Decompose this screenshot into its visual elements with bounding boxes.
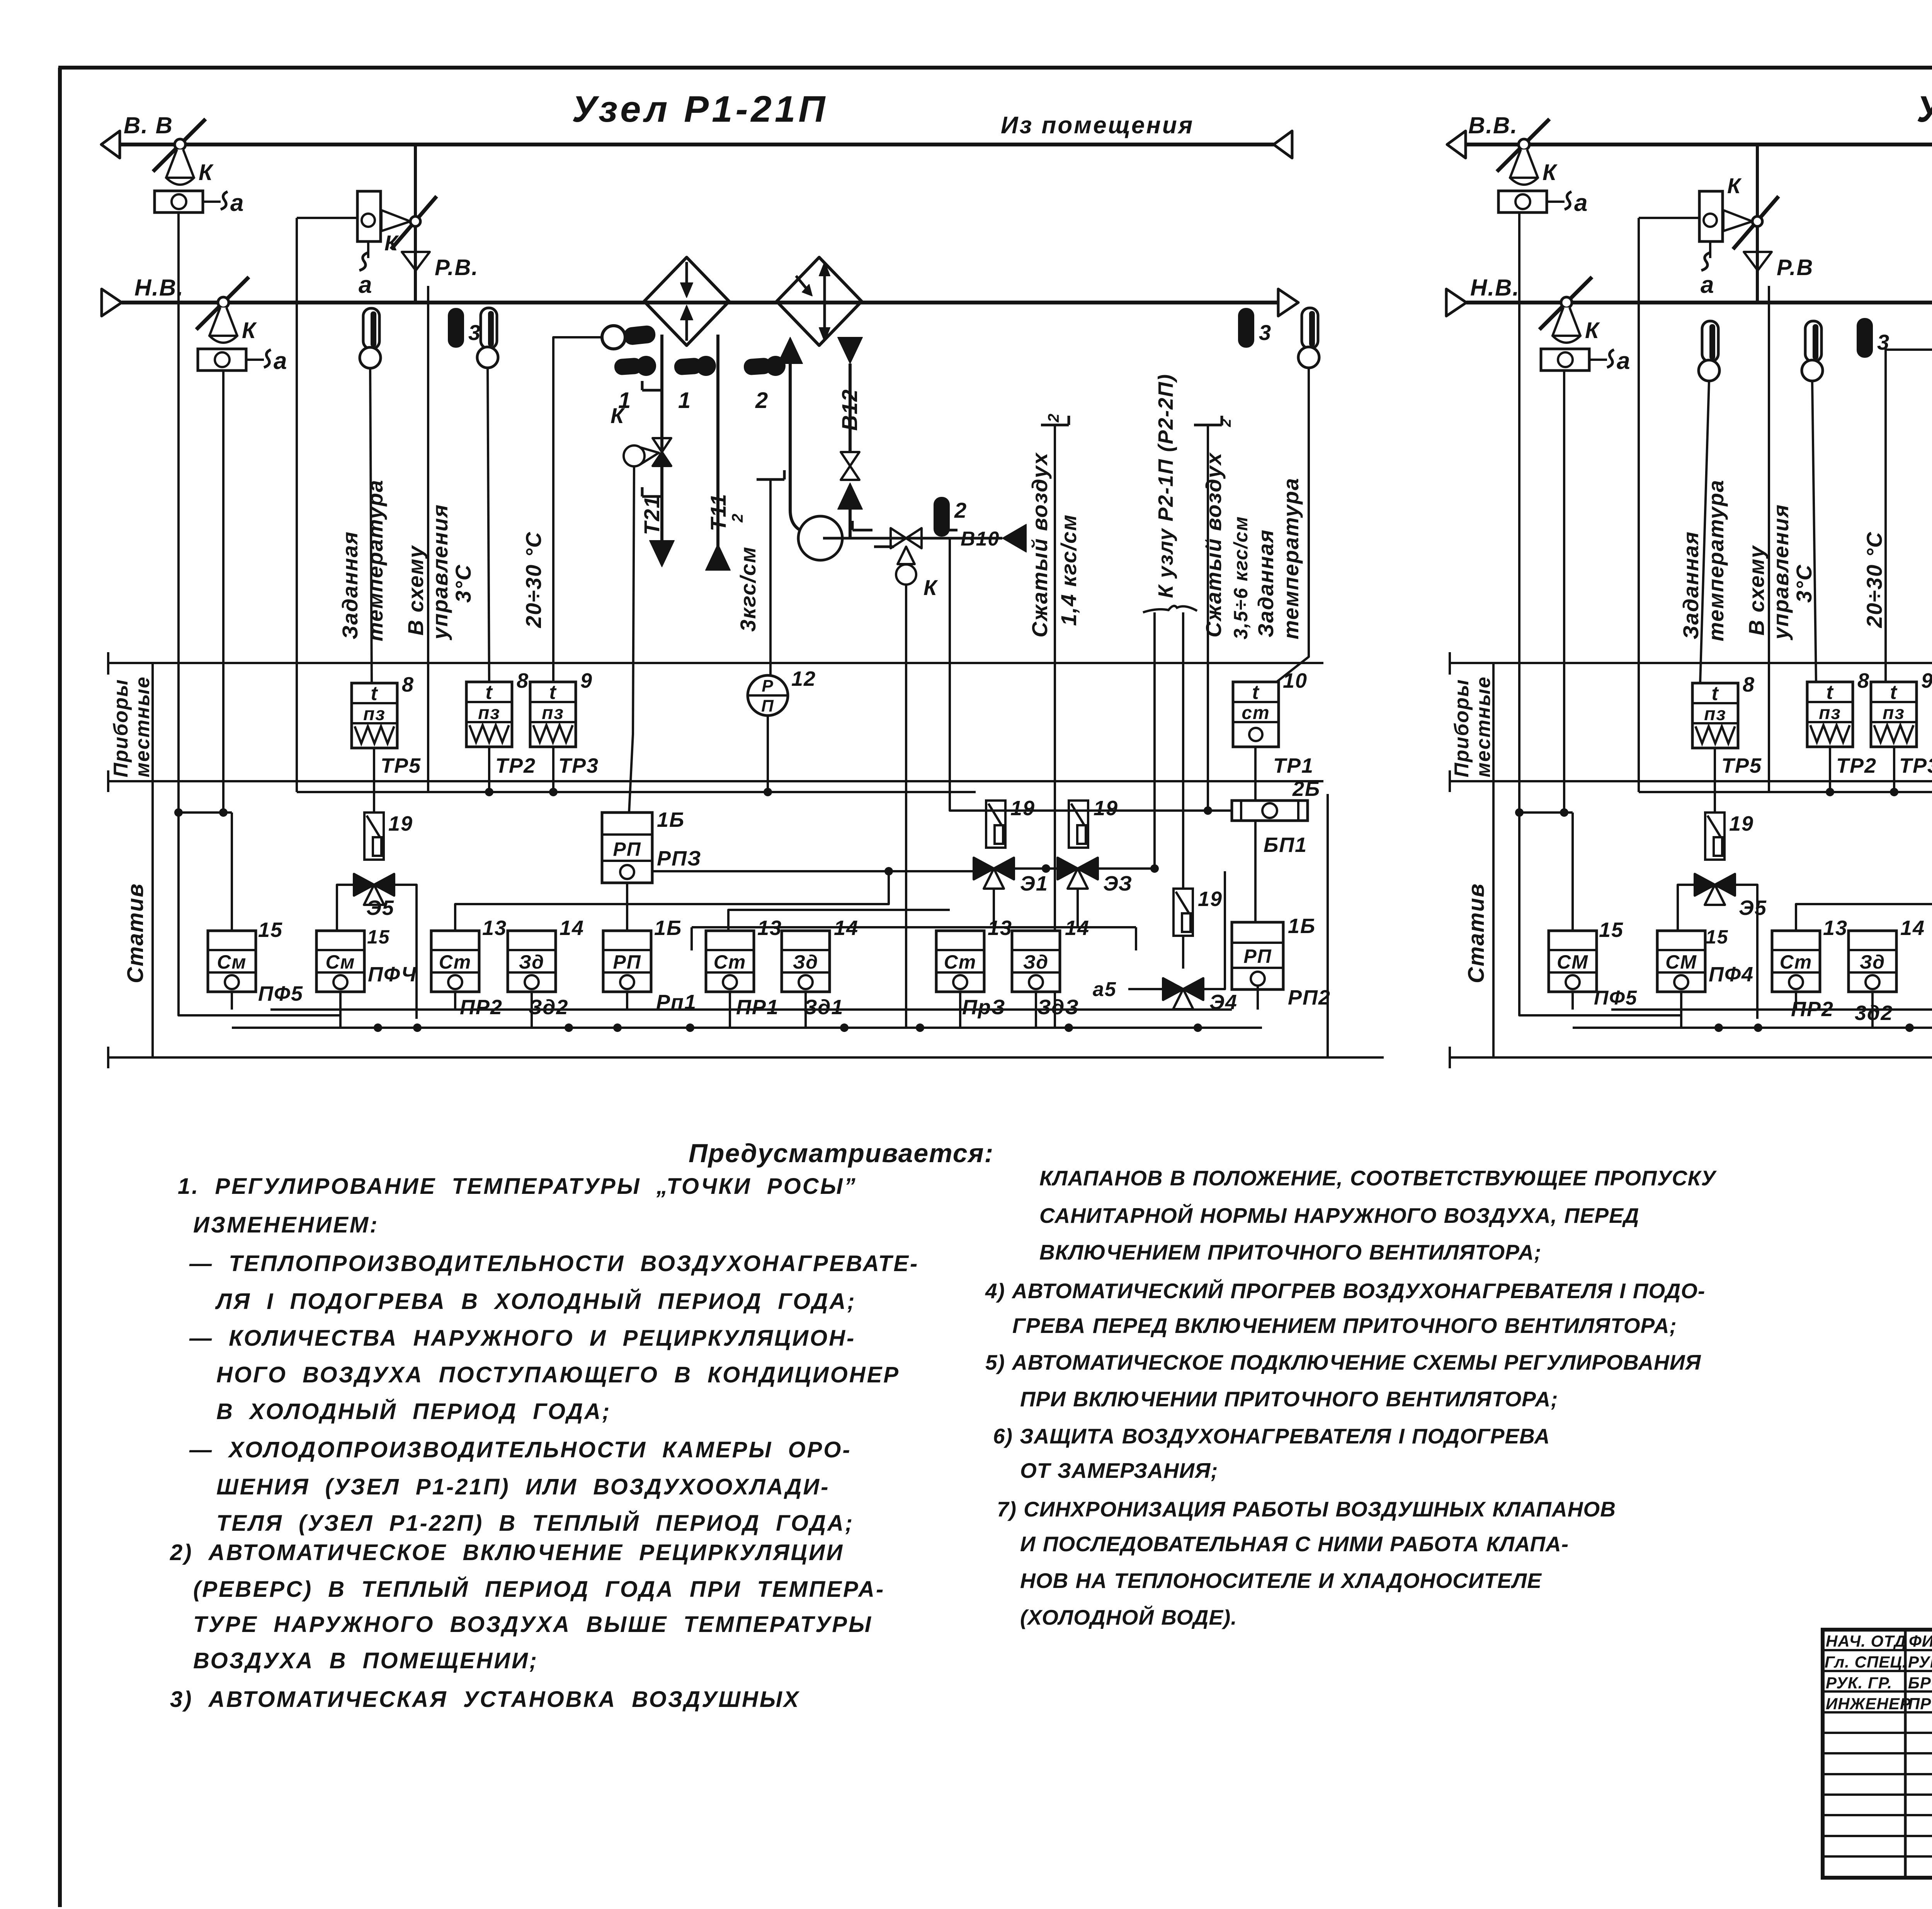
svg-text:19: 19 [1010,797,1035,820]
svg-text:t: t [485,681,493,704]
damper K2 supply pivot [218,297,229,308]
svg-text:14: 14 [1900,916,1925,940]
supply duct N.V. left schematic [122,301,1278,304]
svg-text:температура: температура [363,479,387,641]
sensor pickup 1b left [674,357,703,376]
T right-1 lead [1700,381,1709,683]
wire box stubs left [231,992,233,1010]
svg-text:Зд: Зд [793,951,818,973]
recirculation riser [414,144,417,303]
svg-text:1Б: 1Б [657,808,685,831]
damper K1 exhaust membrane actuator [166,150,194,185]
thermometer T left-3 lead [488,368,489,683]
svg-text:Из помещения: Из помещения [1001,112,1194,139]
wire bus W4 [232,1027,1262,1029]
svg-text:В12: В12 [837,389,862,431]
svg-text:3,5÷6 кгс/см: 3,5÷6 кгс/см [1230,516,1252,639]
svg-text:ТР5: ТР5 [381,754,421,777]
recirc damper blade [391,196,437,249]
svg-text:В10: В10 [961,528,1000,550]
svg-text:Статив: Статив [1464,883,1489,983]
wire gauge drop [767,716,769,792]
wire bracket 13-14 b [728,910,950,931]
svg-text:Э1: Э1 [1020,872,1048,895]
svg-text:5) АВТОМАТИЧЕСКОЕ ПОДКЛЮЧЕН: 5) АВТОМАТИЧЕСКОЕ ПОДКЛЮЧЕНИЕ СХЕМЫ РЕГУ… [985,1350,1701,1374]
thermometer T left-2 (3) [448,308,464,348]
svg-text:t: t [1826,681,1834,704]
wire bracket 13-14 a r [1796,871,1932,931]
wire B10 actuator drop [905,585,907,1028]
wire a5 [1128,988,1163,990]
svg-text:Заданная: Заданная [338,531,362,639]
wire damper drops junction r [1518,212,1520,813]
svg-text:ПРОБИН: ПРОБИН [1908,1695,1932,1713]
svg-text:СМ: СМ [1557,951,1588,973]
wire W3 risers [690,927,693,950]
svg-text:ТР2: ТР2 [1836,754,1877,777]
svg-text:К: К [242,318,257,343]
svg-text:7) СИНХРОНИЗАЦИЯ РАБОТЫ: 7) СИНХРОНИЗАЦИЯ РАБОТЫ ВОЗДУШНЫХ КЛАПАН… [997,1497,1616,1521]
svg-text:Статив: Статив [123,883,148,983]
svg-text:t: t [1711,682,1719,705]
svg-text:Приборы: Приборы [1451,679,1473,777]
svg-text:— ТЕПЛОПРОИЗВОДИТЕЛЬНОСТИ В: — ТЕПЛОПРОИЗВОДИТЕЛЬНОСТИ ВОЗДУХОНАГРЕВА… [189,1251,919,1276]
device Zd2 left [508,931,556,992]
svg-text:2: 2 [755,388,769,413]
svg-text:К: К [611,403,625,428]
wire E4 right [1203,871,1225,989]
svg-text:температура: температура [1279,478,1303,639]
device RP2 left [1232,922,1283,989]
solenoid valve E3 left [1058,858,1078,879]
instrument TP1 left [1233,682,1279,747]
thermometer T left-1 [363,308,379,349]
svg-text:К: К [1585,318,1600,343]
svg-text:8: 8 [402,673,414,696]
svg-text:Т21: Т21 [639,496,664,535]
svg-text:а: а [1617,348,1631,374]
svg-text:ст: ст [1242,703,1270,723]
valve B12 valve [841,452,859,466]
damper K1r exhaust link to a [1547,201,1565,203]
recirc feed wire [297,217,357,219]
damper K1 exhaust pivot [175,139,185,150]
air cap 3kgf [757,478,784,481]
wire damper drops junction [177,212,180,813]
page border top [58,66,1932,70]
svg-text:управления: управления [428,504,452,641]
damper K1 exhaust positioner box [155,191,203,212]
stativ bracket vertical right [1492,663,1495,1057]
svg-text:ВОЗДУХА В ПОМЕЩЕНИИ;: ВОЗДУХА В ПОМЕЩЕНИИ; [193,1648,538,1673]
device RP3 left [602,813,652,883]
recirc damper blade right [1733,196,1779,249]
svg-text:t: t [549,681,557,704]
svg-text:19: 19 [388,812,413,835]
damper K2r supply pivot [1561,297,1572,308]
svg-text:— КОЛИЧЕСТВА НАРУЖНОГО И Р: — КОЛИЧЕСТВА НАРУЖНОГО И РЕЦИРКУЛЯЦИОН- [189,1326,855,1351]
svg-text:Ст: Ст [714,951,747,973]
svg-text:Заданная: Заданная [1679,531,1703,639]
recirc positioner box [357,191,381,241]
wire left L [179,813,340,1015]
svg-text:9: 9 [580,669,593,692]
svg-text:В.В.: В.В. [1468,112,1518,138]
device PR3 left [936,931,984,992]
svg-text:6) ЗАЩИТА ВОЗДУХОНАГРЕВАТЕЛ: 6) ЗАЩИТА ВОЗДУХОНАГРЕВАТЕЛЯ I ПОДОГРЕВА [993,1424,1550,1448]
svg-text:12: 12 [791,667,816,690]
solenoid valve E4 left [1163,978,1183,1000]
exhaust duct V.V. right schematic [1465,143,1932,146]
svg-text:ОТ ЗАМЕРЗАНИЯ;: ОТ ЗАМЕРЗАНИЯ; [1020,1459,1218,1482]
exhaust duct V.V. left schematic [119,143,1274,146]
svg-text:Зд: Зд [519,951,544,973]
svg-text:1: 1 [678,388,691,413]
svg-text:t: t [371,682,378,705]
boundary line B left [108,780,1323,782]
svg-text:ТР2: ТР2 [495,754,536,777]
svg-text:19: 19 [1729,812,1754,835]
stativ bottom boundary left [108,1056,1384,1059]
instrument TP5 right [1692,683,1738,748]
svg-text:ВКЛЮЧЕНИЕМ ПРИТОЧНОГО ВЕ: ВКЛЮЧЕНИЕМ ПРИТОЧНОГО ВЕНТИЛЯТОРА; [1039,1240,1541,1264]
svg-text:а: а [1701,272,1714,298]
svg-text:2: 2 [1045,413,1062,423]
damper K2r supply link to a [1589,359,1607,361]
svg-text:ПФЧ: ПФЧ [368,963,417,986]
wire box stubs right [1571,992,1574,1010]
thermometer T right-3 (3) [1857,318,1873,358]
svg-text:19: 19 [1198,887,1223,911]
damper K2 supply blade [196,277,249,330]
svg-text:3д2: 3д2 [1855,1001,1893,1025]
svg-text:3) АВТОМАТИЧЕСКАЯ УСТАНОВКА: 3) АВТОМАТИЧЕСКАЯ УСТАНОВКА ВОЗДУШНЫХ [170,1687,800,1712]
svg-text:15: 15 [367,926,390,948]
svg-text:К: К [1543,160,1558,185]
pipe B10 horizontal [823,537,1002,540]
svg-text:пз: пз [478,703,500,723]
thermometer T left-5 [1302,308,1318,348]
air line 3.5-6 left [1194,424,1222,427]
damper K1r exhaust membrane actuator [1510,150,1538,185]
damper K1 exhaust blade [153,119,206,172]
pressure gauge 12 left [748,675,788,716]
svg-text:10: 10 [1283,669,1308,692]
wire TP2 drop [488,747,490,792]
device PF4 left [316,931,364,992]
svg-text:Т11: Т11 [706,493,730,531]
damper K1r exhaust pivot [1519,139,1529,150]
svg-text:РПЗ: РПЗ [657,847,702,870]
wire TP5 r drop [1714,748,1716,813]
pipe T21 [660,335,663,542]
svg-text:3: 3 [468,320,481,345]
svg-text:Зд1: Зд1 [804,996,844,1019]
personnel entries [1825,1632,1932,1713]
svg-text:15: 15 [1599,918,1624,942]
svg-text:Заданная: Заданная [1253,529,1278,637]
svg-text:ТР3: ТР3 [558,754,599,777]
wire E1-E3 link [1014,867,1058,870]
thermometer T left-5 lead [1275,368,1309,683]
svg-text:САНИТАРНОЙ НОРМЫ НАРУЖНОГО: САНИТАРНОЙ НОРМЫ НАРУЖНОГО ВОЗДУХА, ПЕРЕ… [1039,1203,1639,1227]
svg-text:13: 13 [1823,916,1848,940]
thermometer T left-4 (3) [1238,308,1254,348]
svg-text:РП: РП [1243,945,1272,967]
svg-text:1Б: 1Б [654,916,682,940]
instrument TP3 right [1871,682,1917,747]
wire RP3 to Rp1 [626,883,628,931]
svg-text:2Б: 2Б [1292,777,1320,801]
svg-text:Сжатый воздух: Сжатый воздух [1027,452,1052,637]
svg-text:НАЧ. ОТД: НАЧ. ОТД [1826,1632,1906,1650]
wire bracket 13-14 a [455,871,889,931]
svg-text:ТР3: ТР3 [1899,754,1932,777]
device PR2 right [1772,931,1820,992]
svg-text:РП: РП [613,838,641,860]
wire K uzlu b [1182,612,1184,889]
actuator T21 actuator [640,447,659,464]
svg-text:а5: а5 [1093,978,1117,1001]
relay 19 #1 left [364,813,384,860]
instrument TP2 left [466,682,512,747]
relay 19 #4 left [1173,889,1193,936]
recirc vent triangle R.V. [402,252,430,270]
wire recirc drop [296,218,298,792]
pipe B10 end arrow [1002,524,1026,552]
svg-text:И ПОСЛЕДОВАТЕЛЬНАЯ С НИМИ: И ПОСЛЕДОВАТЕЛЬНАЯ С НИМИ РАБОТА КЛАПА- [1020,1532,1569,1556]
svg-text:СМ: СМ [1665,951,1697,973]
recirc pivot [410,216,420,226]
svg-text:В схему: В схему [403,545,428,636]
wire TP5 drop [373,748,375,813]
device PF5 right [1549,931,1597,992]
svg-text:Н.В.: Н.В. [134,275,184,301]
svg-text:20÷30 °С: 20÷30 °С [1862,531,1886,628]
svg-text:К: К [384,231,399,255]
svg-text:9: 9 [1921,669,1932,692]
svg-text:В. В: В. В [124,112,173,138]
svg-text:ПФ5: ПФ5 [258,982,303,1005]
wire TP1 drop [1254,747,1257,801]
stativ bottom boundary right [1450,1056,1932,1059]
svg-text:В схему: В схему [1744,545,1769,636]
relay 19 #2 left [986,801,1005,848]
solenoid valve E5 right [1695,874,1715,896]
thermometer T right-2 [1805,321,1821,362]
svg-text:БП1: БП1 [1264,833,1307,857]
svg-text:(РЕВЕРС) В ТЕПЛЫЙ ПЕРИОД Г: (РЕВЕРС) В ТЕПЛЫЙ ПЕРИОД ГОДА ПРИ ТЕМПЕР… [193,1576,885,1602]
svg-text:Э5: Э5 [366,896,395,920]
svg-text:15: 15 [258,918,283,942]
notes right column [985,1166,1717,1629]
duct N.V. left arrow [102,289,122,316]
svg-text:пз: пз [1819,703,1841,723]
svg-text:пз: пз [1883,703,1905,723]
svg-text:ГРЕВА ПЕРЕД ВКЛЮЧЕНИЕМ ПРИТ: ГРЕВА ПЕРЕД ВКЛЮЧЕНИЕМ ПРИТОЧНОГО ВЕНТИЛ… [1012,1314,1677,1338]
instrument TP2 right [1807,682,1853,747]
wire BP1 to RP2 [1254,821,1257,922]
boundary line A left [108,662,1323,664]
svg-text:РП2: РП2 [1288,986,1331,1009]
svg-text:РП: РП [613,951,641,973]
recirc vent triangle right [1744,252,1772,270]
damper K2 supply positioner box [198,349,246,371]
svg-text:ПРИ ВКЛЮЧЕНИИ ПРИТОЧНОГО: ПРИ ВКЛЮЧЕНИИ ПРИТОЧНОГО ВЕНТИЛЯТОРА; [1020,1387,1558,1411]
svg-text:3: 3 [1259,320,1272,345]
svg-text:К: К [199,160,214,185]
svg-text:См: См [325,951,355,973]
duct V.V. left arrow [101,131,120,158]
wire bus W2 [297,791,976,793]
svg-text:2: 2 [954,498,967,522]
pipe T11 [716,335,719,549]
svg-text:ПФ5: ПФ5 [1594,987,1638,1009]
svg-text:3кгс/см: 3кгс/см [736,546,760,632]
B10 actuator [898,547,915,564]
wire to PF5 r [1571,813,1574,931]
relay 19 #1 right [1705,813,1725,860]
damper K1r exhaust positioner box [1498,191,1547,212]
svg-text:Приборы: Приборы [110,679,132,777]
svg-text:1,4 кгс/см: 1,4 кгс/см [1056,514,1081,626]
wire E5 r left elbow [1678,885,1695,931]
svg-text:Ст: Ст [439,951,472,973]
pump circle [798,516,842,560]
wire left L r [1519,813,1681,1015]
svg-text:пз: пз [1704,704,1726,724]
wire a-tilde drop r [1768,286,1770,792]
T right-2 lead [1812,381,1816,683]
svg-text:ПрЗ: ПрЗ [962,996,1006,1019]
wire TP3 r drop [1893,747,1895,792]
wire E3 drop [1077,889,1079,927]
damper K1r exhaust blade [1497,119,1549,172]
thermometer T right-1 [1702,321,1718,362]
svg-text:2: 2 [729,513,746,523]
svg-text:а: а [359,272,372,298]
wire TP3 drop [552,747,554,792]
svg-text:П: П [761,697,774,716]
svg-text:ЛЯ I ПОДОГРЕВА В ХОЛОДНЫЙ: ЛЯ I ПОДОГРЕВА В ХОЛОДНЫЙ ПЕРИОД ГОДА; [215,1289,856,1314]
personnel table rows [1823,1649,1932,1651]
pipe B12 [838,337,862,364]
wire bus W5 [270,1008,1232,1011]
device PF4 right [1657,931,1705,992]
wire RP3 right [652,870,973,872]
damper K1 exhaust link to a [203,201,221,203]
wire E1 drop [993,889,995,927]
wire to PF5 [231,813,233,931]
wire T21 actuator to RP3 [629,466,634,813]
wire bus W5 r [1611,1008,1932,1011]
svg-text:3°С: 3°С [451,564,475,603]
svg-text:ИЗМЕНЕНИЕМ:: ИЗМЕНЕНИЕМ: [193,1212,379,1238]
thermometer T left-1 lead [370,368,372,683]
sensor pickup P0 left [602,326,625,349]
svg-text:См: См [217,951,247,973]
recirc actuator cone right [1723,210,1752,231]
damper K2r supply membrane actuator [1553,308,1580,343]
svg-text:температура: температура [1704,479,1728,641]
svg-text:Ст: Ст [1780,951,1813,973]
wire 19#4 [1182,936,1184,969]
svg-text:2: 2 [1218,418,1234,427]
svg-text:местные: местные [131,676,154,777]
relay 19 #3 left [1069,801,1088,848]
brace K uzlu [1143,606,1197,612]
svg-text:НОГО ВОЗДУХА ПОСТУПАЮЩЕГО: НОГО ВОЗДУХА ПОСТУПАЮЩЕГО В КОНДИЦИОНЕР [216,1362,900,1387]
boundary line A right [1450,662,1932,664]
svg-text:К: К [1727,173,1742,198]
svg-text:1. РЕГУЛИРОВАНИЕ ТЕМПЕРАТУРЫ „: 1. РЕГУЛИРОВАНИЕ ТЕМПЕРАТУРЫ „ТОЧКИ РОСЫ… [178,1174,857,1199]
pickup P0 wire [553,337,602,683]
heat-exchanger L2 [777,257,862,345]
svg-text:14: 14 [560,916,584,940]
svg-text:КЛАПАНОВ В ПОЛОЖЕНИЕ, СООТВЕ: КЛАПАНОВ В ПОЛОЖЕНИЕ, СООТВЕТСТВУЮЩЕЕ ПР… [1039,1166,1717,1190]
recirc positioner box right [1699,191,1723,241]
device Rp1 left [603,931,651,992]
svg-text:а: а [1574,190,1588,216]
duct N.V. right arrow [1278,289,1298,316]
supply duct N.V. right schematic [1466,301,1932,304]
svg-text:1Б: 1Б [1288,915,1316,938]
recirc feed wire right [1639,217,1699,219]
svg-text:20÷30 °С: 20÷30 °С [521,531,546,628]
wire pump drop to BP1 [950,538,1232,811]
device Zd3 left [1012,931,1060,992]
svg-text:Ст: Ст [944,951,977,973]
wire E5 left elbow [337,885,354,931]
pipe into L2 with up arrow [778,337,803,364]
svg-text:Предусматривается:: Предусматривается: [689,1139,994,1168]
instrument TP5 left [352,683,397,748]
notes left column [170,1174,919,1712]
svg-text:Зд: Зд [1860,951,1885,973]
recirc actuator cone [381,210,410,231]
svg-text:управления: управления [1769,504,1793,641]
svg-text:пз: пз [363,704,386,724]
svg-text:Р.В.: Р.В. [435,255,479,280]
solenoid valve E1 left [974,858,994,879]
svg-text:(ХОЛОДНОЙ ВОДЕ).: (ХОЛОДНОЙ ВОДЕ). [1020,1605,1237,1629]
svg-text:а: а [230,190,244,216]
sensor pickup 1a left [614,357,643,376]
valve B10 valve [891,528,906,548]
svg-text:а: а [274,348,287,374]
svg-text:ПР1: ПР1 [736,996,779,1019]
svg-text:t: t [1252,681,1260,704]
svg-text:Р: Р [762,677,774,695]
svg-text:Гл. СПЕЦ.: Гл. СПЕЦ. [1825,1653,1907,1671]
svg-text:ФИНГЕР: ФИНГЕР [1909,1632,1932,1650]
wire K uzlu a [1153,612,1156,869]
solenoid valve E5 left [354,874,374,896]
svg-text:ЗдЗ: ЗдЗ [1037,996,1079,1019]
heat-exchanger L1 [644,257,729,345]
svg-text:ЭЗ: ЭЗ [1103,872,1133,895]
svg-text:ТУРЕ НАРУЖНОГО ВОЗДУХА ВЫ: ТУРЕ НАРУЖНОГО ВОЗДУХА ВЫШЕ ТЕМПЕРАТУРЫ [193,1612,872,1637]
device PR1 left [706,931,754,992]
svg-text:Р.В: Р.В [1777,255,1813,280]
wire E5 right elbow [394,885,417,1019]
svg-text:8: 8 [1743,673,1755,696]
device Zd1 left [782,931,830,992]
svg-text:8: 8 [1857,669,1870,692]
svg-text:Узел Р1-22П: Узел Р1-22П [1917,88,1932,130]
wire W3 [692,926,1136,928]
svg-text:t: t [1890,681,1898,704]
